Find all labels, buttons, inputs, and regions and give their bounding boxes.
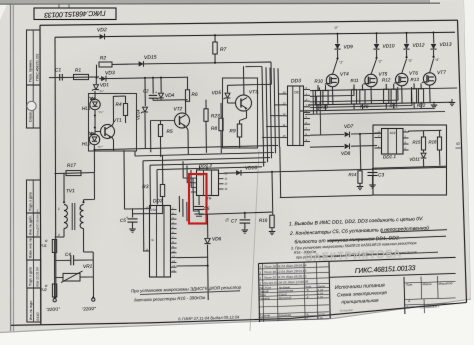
resistor R18: [439, 130, 441, 137]
svg-text:VD13: VD13: [439, 42, 452, 48]
svg-text:VD9: VD9: [343, 44, 353, 50]
svg-text:“220/2”: “220/2”: [82, 306, 97, 312]
svg-text:R12: R12: [382, 77, 391, 82]
bus wire 4: [150, 162, 266, 165]
resistor R4: [125, 96, 127, 104]
varistor VR1: [55, 276, 64, 278]
subcircuit box HL/VT1: [89, 94, 137, 152]
svg-text:R8: R8: [211, 126, 218, 132]
svg-text:R17: R17: [67, 163, 76, 169]
bus wire 5: [157, 167, 262, 170]
diode VD12: [406, 32, 408, 34]
wire VT3 collector: [243, 66, 245, 95]
svg-text:Лист: Лист: [405, 305, 414, 309]
bus vertical drops to DD2 area: [123, 150, 126, 208]
capacitor C2: [152, 78, 154, 94]
wire box bottom rail: [373, 166, 447, 168]
svg-text:Утв.: Утв.: [259, 317, 266, 321]
top rail wire: [55, 32, 455, 37]
gate feed line A: [305, 112, 445, 115]
resistor R1: [74, 74, 89, 79]
svg-text:Масштаб: Масштаб: [438, 281, 453, 286]
DD3 left pin links: [262, 137, 282, 139]
svg-text:R1: R1: [75, 68, 82, 74]
svg-text:HL1: HL1: [82, 106, 91, 112]
capacitor C3: [372, 168, 374, 171]
svg-text:VD15: VD15: [144, 55, 157, 61]
handwritten strikethrough: [140, 291, 240, 295]
resistor R9: [239, 121, 241, 125]
svg-text:DD3: DD3: [291, 78, 301, 84]
resistor R17: [66, 171, 81, 176]
transistor VT1: [101, 125, 115, 139]
TV1 core: [71, 203, 73, 230]
svg-text:VT2: VT2: [173, 106, 182, 112]
gate wire to VT7: [310, 106, 412, 108]
IC DD1.1: [382, 129, 404, 155]
svg-text:DC: DC: [294, 90, 300, 94]
bus risers to DD3: [262, 67, 264, 167]
maze verticals near DD3: [312, 91, 315, 114]
terminal 220/2: [92, 298, 95, 301]
svg-text:Жив 21.01.04: Жив 21.01.04: [36, 267, 40, 288]
wire source VT4: [332, 87, 334, 105]
wire R17 row: [55, 173, 95, 174]
svg-text:VD16: VD16: [245, 165, 258, 171]
wire VT2 base: [151, 120, 175, 122]
svg-text:“220/1”: “220/1”: [46, 306, 61, 312]
source return wire: [308, 102, 452, 105]
wire drain VT4: [333, 59, 338, 74]
LED HL2: [89, 134, 99, 144]
wire mains right: [92, 252, 94, 298]
svg-text:TM: TM: [207, 196, 212, 200]
IC DD3: [288, 86, 304, 146]
svg-text:VD1: VD1: [100, 82, 110, 87]
wire 0V riser x280: [279, 147, 282, 198]
wire HL1 to HL2: [94, 110, 96, 135]
svg-text:C6: C6: [203, 206, 209, 211]
note 2 strikethrough: [381, 230, 447, 233]
svg-text:Б: Б: [456, 142, 461, 145]
diode VD9: [337, 33, 339, 35]
bus drop verticals to DD1.2: [182, 161, 184, 178]
gate wire to VT4: [310, 90, 320, 92]
wire VD16 row: [224, 167, 447, 173]
wire VT3 emitter: [246, 111, 248, 119]
resistor R15: [423, 131, 425, 138]
svg-text:VD8: VD8: [341, 151, 351, 157]
svg-text:⊗: ⊗: [44, 284, 47, 288]
resistor R12: [384, 89, 389, 103]
svg-text:Формат А4: Формат А4: [420, 305, 435, 310]
svg-text:VD6: VD6: [212, 236, 222, 242]
diode VD11: [423, 150, 425, 153]
wire corner x=271 down: [270, 62, 272, 85]
resistor R8: [220, 103, 222, 119]
svg-text:R10: R10: [314, 78, 323, 83]
wire 0V to module box bottom: [280, 195, 373, 197]
svg-text:Нов.ДУП 26.04.04ч: Нов.ДУП 26.04.04ч: [36, 209, 40, 236]
wire TV1 bottom right: [83, 229, 85, 253]
svg-text:R4: R4: [115, 102, 122, 108]
wire VD3 row drops: [144, 77, 146, 79]
bus wire 3: [143, 158, 270, 161]
list listov row: [404, 298, 456, 300]
DD1.1 right pins: [403, 131, 409, 133]
svg-text:C2: C2: [143, 88, 149, 93]
resistor R16: [271, 172, 274, 216]
resistor R21 pair: [391, 89, 396, 103]
svg-text:VD3: VD3: [105, 70, 115, 76]
svg-text:∅: ∅: [225, 217, 229, 222]
wire VT2 emitter: [186, 127, 188, 131]
resistor R22 pair: [418, 89, 423, 103]
margin table Podp i data 1: [27, 180, 41, 213]
margin table Inv No dubl: [27, 213, 41, 237]
wire R3 bottom to C5: [133, 213, 163, 215]
svg-text:Инв. № дубл.: Инв. № дубл.: [29, 215, 33, 235]
wire TV1 bottom left: [63, 229, 65, 238]
wire VT1 base: [95, 131, 101, 133]
gate wire to VT5: [310, 95, 354, 98]
lit massa masshtab header: [404, 281, 456, 283]
wire VD3 row: [99, 77, 188, 79]
title block header and sig rows: [259, 287, 330, 289]
module box DD1.1 area: [373, 125, 447, 195]
svg-text:Перв. примен.: Перв. примен.: [29, 59, 33, 82]
name cell divider: [403, 277, 406, 314]
svg-text:Т.контр.: Т.контр.: [259, 296, 271, 300]
wire to VD5 top: [228, 84, 272, 85]
margin table Vzam inv No: [27, 237, 41, 260]
node line VT2 collector: [153, 99, 188, 102]
diode VD4 zener: [160, 78, 162, 93]
wire DD2 pins to VD6 column: [177, 256, 208, 259]
svg-text:HL2: HL2: [82, 141, 91, 147]
wire R2 to VD15 row: [112, 62, 271, 64]
resistor R5: [160, 121, 162, 125]
svg-text:Соломин: Соломин: [278, 316, 291, 320]
svg-text:C12: C12: [390, 131, 396, 135]
wire R4 top node: [114, 95, 126, 97]
bus wire 1: [95, 145, 279, 149]
svg-text:DD2: DD2: [153, 198, 163, 204]
frame bottom line: [11, 303, 467, 326]
title block vertical dividers: [259, 264, 260, 323]
note 3 strikethrough: [320, 252, 438, 257]
svg-text:R11: R11: [350, 78, 359, 83]
svg-text:R2: R2: [100, 55, 107, 61]
terminal 220/1: [53, 299, 56, 302]
diode VD8: [345, 144, 350, 149]
scan top edge band: [0, 0, 430, 3]
svg-text:R13: R13: [410, 77, 419, 82]
frame left line: [39, 25, 42, 325]
transistor VT4 MOSFET: [326, 74, 338, 86]
svg-text:VD12: VD12: [412, 42, 425, 48]
ground VT7 source: [433, 102, 435, 106]
resistor R11: [351, 90, 356, 104]
svg-text:Инв. № подл.: Инв. № подл.: [29, 300, 33, 320]
title block main divider: [329, 261, 330, 318]
svg-text:FU1: FU1: [40, 244, 47, 248]
svg-text:R20: R20: [360, 104, 369, 109]
resistor R14: [358, 171, 362, 184]
fuse FU2: [52, 284, 56, 297]
svg-text:FU2: FU2: [40, 288, 47, 292]
svg-text:Виталий: Виталий: [278, 296, 291, 301]
diode VD2: [100, 34, 105, 39]
svg-text:VT1: VT1: [113, 118, 122, 124]
resistor R10: [315, 90, 320, 104]
wire C1 R1 row: [49, 76, 99, 79]
svg-text:R18: R18: [428, 139, 437, 144]
svg-text:ГИКС.468151.001: ГИКС.468151.001: [35, 53, 39, 81]
resistor R7: [214, 35, 216, 42]
margin table Inv No podl: [27, 288, 41, 322]
IC DD1.2: [197, 170, 219, 196]
svg-text:R21: R21: [389, 103, 398, 108]
diode VD6: [207, 214, 209, 238]
wire drain VT7: [430, 59, 434, 73]
junction node R1/R2: [96, 77, 98, 79]
red box inner wires: [192, 178, 194, 211]
wire drain VT6: [402, 59, 407, 73]
wire source VT6: [401, 86, 403, 103]
DD2 right pins: [171, 209, 177, 211]
diode VD14 zener: [144, 78, 146, 106]
svg-text:VD4: VD4: [165, 93, 175, 99]
resistor R20 pair: [360, 90, 365, 104]
svg-text:VD7: VD7: [344, 124, 354, 130]
transistor VT6 MOSFET: [396, 73, 408, 85]
diode VD10: [376, 32, 378, 34]
wire VT3 base: [227, 99, 229, 103]
DD3 right pins: [304, 89, 311, 91]
fuse FU1: [52, 240, 56, 253]
svg-text:R19: R19: [319, 105, 328, 110]
transistor VT5 MOSFET: [365, 74, 377, 86]
resistor tops rail: [312, 88, 457, 91]
left drop wire x=55: [54, 37, 57, 298]
transistor VT2: [175, 113, 190, 128]
svg-text:4 рк.: 4 рк.: [317, 316, 323, 320]
svg-text:VT7: VT7: [437, 70, 446, 76]
capacitor C7: [244, 212, 246, 214]
wire drain VT5: [371, 59, 377, 74]
frame right line: [458, 20, 467, 302]
svg-text:DD1.1: DD1.1: [383, 154, 397, 159]
svg-text:VR1: VR1: [83, 264, 93, 270]
resistor R23: [205, 100, 207, 109]
margin table Podp i data 2: [27, 260, 41, 288]
svg-text:Подп. и дата: Подп. и дата: [29, 267, 33, 286]
stubs above DD1.2 from bus: [199, 166, 201, 170]
svg-text:⊗: ⊗: [44, 239, 47, 243]
svg-text:VD2: VD2: [97, 27, 107, 33]
svg-text:VT6: VT6: [409, 70, 418, 76]
subcircuit box VT3: [223, 78, 258, 148]
capacitor C1: [59, 74, 61, 81]
wire R4col to DD2 pin16: [124, 208, 144, 210]
svg-text:Взам. инв. №: Взам. инв. №: [29, 238, 33, 258]
diode VD7: [345, 132, 350, 137]
svg-text:C4: C4: [65, 252, 71, 257]
wire HL2 to R17 row: [93, 145, 95, 173]
resistor R19 pair: [323, 90, 328, 104]
DD2 right stub risers: [178, 196, 180, 212]
wire mains left: [54, 253, 56, 299]
wire C7 row: [199, 212, 272, 214]
IC DD2: [150, 206, 171, 278]
svg-text:VD5: VD5: [212, 90, 222, 96]
svg-text:C3: C3: [378, 172, 385, 178]
svg-text:R3: R3: [142, 184, 149, 190]
title block lower sig rows: [259, 312, 330, 314]
hole punch: [27, 101, 36, 110]
svg-text:R9: R9: [229, 128, 236, 134]
wire source VT5: [370, 87, 372, 104]
svg-text:4.04: 4.04: [317, 295, 323, 299]
binding margin lines: [10, 4, 12, 331]
svg-text:VD11: VD11: [409, 156, 420, 161]
margin table Perv primen: [27, 30, 41, 85]
wire source VT7: [429, 85, 432, 103]
capacitor C5: [132, 208, 134, 217]
diode VD13: [433, 32, 435, 34]
resistor R3: [162, 156, 164, 185]
gate wire to VT6: [310, 100, 398, 102]
svg-text:VD14: VD14: [136, 109, 141, 120]
resistor R13: [411, 89, 416, 103]
diode VD15: [139, 61, 144, 66]
GIKS cell bottom line: [329, 273, 456, 277]
title block revision row lines: [259, 267, 330, 269]
wire VT1 collector: [112, 123, 114, 127]
svg-text:C7: C7: [231, 218, 237, 223]
wire R14 riser from VD7 line: [359, 133, 361, 135]
svg-text:R22: R22: [417, 103, 426, 108]
wire TV1 top right: [93, 173, 95, 200]
svg-text:Лит.: Лит.: [405, 282, 413, 286]
svg-text:VT3.: VT3.: [249, 89, 259, 95]
diode VD16: [236, 170, 241, 175]
bus wire 2: [135, 153, 274, 157]
svg-text:R16: R16: [259, 218, 268, 223]
wire TV1 top left: [63, 174, 65, 204]
page crease: [250, 150, 259, 331]
capacitor C4: [55, 259, 71, 261]
frame top line: [40, 20, 458, 25]
wire DD1.1 top rail: [409, 129, 442, 132]
DD2 left pins: [144, 208, 150, 210]
svg-text:0440: 0440: [36, 312, 40, 321]
resistor R2: [99, 62, 112, 67]
wire VT2 collector: [185, 100, 187, 115]
paper right edge: [464, 0, 471, 300]
svg-text:R15: R15: [412, 139, 421, 144]
diode VD3: [101, 76, 106, 81]
svg-text:R14: R14: [348, 172, 357, 177]
diode VD5 zener: [227, 85, 229, 92]
transistor VT3: [236, 95, 252, 111]
transistor VT7 MOSFET: [423, 73, 435, 85]
svg-text:Подп. и дата: Подп. и дата: [29, 192, 33, 211]
svg-text:R5: R5: [166, 129, 173, 135]
wire VD8 continues: [351, 145, 377, 148]
diode VD1 zener: [95, 79, 97, 85]
red highlight rectangle: [189, 174, 207, 224]
top dashes: [58, 4, 60, 9]
svg-text:R7: R7: [220, 47, 227, 53]
resistor R6: [187, 77, 189, 89]
margin table Sprav No: [27, 85, 41, 128]
wire DD3 out to VD8: [310, 145, 344, 148]
svg-text:2: 2: [57, 233, 60, 237]
gate return wire: [300, 108, 434, 111]
svg-text:+: +: [155, 90, 157, 94]
ground far right: [451, 99, 453, 103]
svg-text:VD10: VD10: [382, 43, 395, 49]
capacitor C6 inside red box: [198, 196, 200, 206]
svg-text:DD1.2: DD1.2: [199, 163, 213, 168]
svg-text:Копировал: Копировал: [340, 308, 354, 313]
wire VT1 emitter: [112, 137, 114, 141]
svg-text:C1: C1: [55, 67, 62, 73]
svg-text:R6: R6: [191, 92, 198, 98]
title block outline: [259, 257, 456, 263]
LED HL1: [94, 91, 96, 100]
wire DD3 out to VD7: [310, 134, 344, 137]
svg-text:TV1: TV1: [66, 188, 75, 194]
svg-text:VT4: VT4: [340, 71, 349, 77]
svg-text:Масса: Масса: [422, 282, 431, 286]
svg-text:CT2: CT2: [150, 208, 156, 212]
paper bottom edge: [0, 299, 474, 345]
title box GIKS top-left: [34, 8, 116, 20]
